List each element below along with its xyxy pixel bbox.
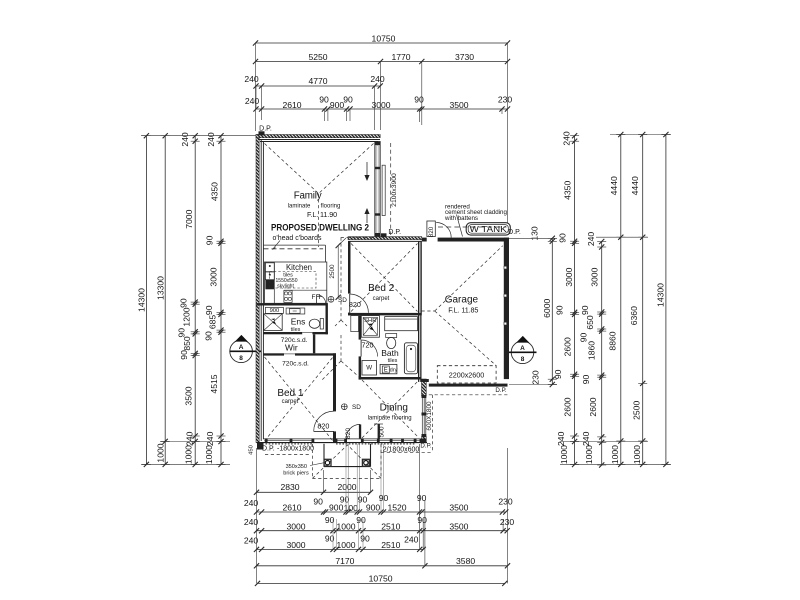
- svg-text:230: 230: [498, 497, 513, 507]
- svg-text:240: 240: [586, 232, 596, 247]
- door kitchen-hall arc: [317, 295, 326, 304]
- downpipe D.P. garage top-right: [508, 229, 521, 236]
- svg-text:SHR: SHR: [364, 318, 376, 324]
- svg-text:90: 90: [179, 350, 189, 360]
- svg-text:tiles: tiles: [291, 327, 301, 333]
- wall kitchen/ens divider: [257, 303, 328, 305]
- dimension column left 13300/1000: [155, 133, 169, 467]
- ceiling line hall spine: [322, 238, 375, 380]
- svg-text:7000: 7000: [184, 209, 194, 228]
- ceiling lines bed1: [265, 357, 334, 441]
- svg-text:F.L. 11.85: F.L. 11.85: [448, 306, 478, 315]
- wall bath/garage dividing: [418, 315, 422, 382]
- kitchen ohead cupboards: [264, 235, 326, 262]
- svg-text:2200x2600: 2200x2600: [449, 371, 485, 380]
- dimension row bottom 7170/3580: [254, 556, 510, 569]
- svg-text:2100x3900: 2100x3900: [391, 173, 398, 207]
- svg-text:600X1800: 600X1800: [426, 401, 433, 431]
- svg-text:14300: 14300: [656, 283, 666, 307]
- svg-text:2600: 2600: [563, 337, 573, 356]
- svg-text:skylight: skylight: [277, 284, 294, 290]
- svg-text:450: 450: [248, 445, 254, 455]
- kitchen F symbol: [312, 294, 322, 301]
- bath labels: [381, 348, 399, 364]
- dimension row bottom 240..1520/3500/230: [244, 493, 513, 514]
- svg-text:D.P.: D.P.: [495, 387, 507, 394]
- svg-text:90: 90: [553, 369, 563, 379]
- door bed1 820: [314, 411, 334, 431]
- svg-text:90: 90: [417, 515, 427, 525]
- svg-text:3000: 3000: [209, 267, 219, 286]
- svg-text:90: 90: [417, 493, 427, 503]
- top extension guide lines: [256, 43, 508, 223]
- svg-text:8: 8: [521, 356, 525, 363]
- dimension column right 240/3000/90/650/90/1860/90/2600/240/1000: [579, 232, 607, 468]
- svg-text:5250: 5250: [308, 52, 327, 62]
- dimension column right 130/6000/230: [530, 226, 557, 387]
- dimension column left 240/7000/90/1200/90/850/90/3500/240/1000: [177, 132, 200, 467]
- dimension column right 14300: [656, 132, 671, 467]
- ceiling lines dining: [362, 380, 419, 438]
- section marker A-8 right: [505, 336, 537, 364]
- ceiling lines family: [265, 144, 374, 248]
- svg-text:tiles: tiles: [388, 358, 398, 364]
- svg-text:720c.s.d.: 720c.s.d.: [282, 360, 309, 367]
- svg-text:240: 240: [206, 132, 216, 147]
- svg-text:240: 240: [185, 431, 195, 446]
- svg-text:4770: 4770: [308, 76, 327, 86]
- room label bed2: [368, 283, 395, 302]
- svg-text:90: 90: [179, 298, 189, 308]
- svg-text:2600: 2600: [588, 397, 598, 416]
- svg-text:850: 850: [182, 336, 192, 351]
- svg-text:4350: 4350: [210, 182, 220, 201]
- svg-text:2610: 2610: [282, 503, 301, 513]
- dimension row top 10750: [253, 33, 510, 45]
- washing machine: [362, 361, 377, 376]
- svg-text:carpet: carpet: [282, 399, 299, 405]
- dimension row top 240/2610/90/900/90/3000/90/3500/230: [245, 95, 513, 112]
- svg-text:14300: 14300: [137, 288, 147, 312]
- svg-text:240: 240: [556, 431, 566, 446]
- kitchen fridge + pantry: [265, 263, 274, 290]
- svg-text:4440: 4440: [630, 176, 640, 195]
- svg-text:350x350: 350x350: [286, 464, 307, 470]
- svg-text:90: 90: [580, 305, 590, 315]
- svg-text:90: 90: [581, 375, 591, 385]
- svg-text:240: 240: [245, 96, 260, 106]
- wir labels: [281, 337, 309, 367]
- fence dashed line at garage front: [438, 226, 507, 228]
- svg-text:dry: dry: [390, 368, 398, 374]
- svg-text:Bed 2: Bed 2: [368, 283, 395, 294]
- svg-text:90: 90: [313, 497, 323, 507]
- svg-text:D.P.: D.P.: [259, 126, 272, 133]
- wall exterior bed2 top: [348, 237, 422, 242]
- wall exterior bottom with windows: [257, 438, 428, 444]
- downpipe D.P. top-left: [259, 126, 272, 136]
- svg-text:F.L. 11.90: F.L. 11.90: [307, 210, 337, 219]
- room label bed1: [277, 388, 304, 405]
- svg-text:240: 240: [581, 431, 591, 446]
- dimension row bottom 240/3000/90/1000/90/2510/90/3500/230: [244, 515, 515, 533]
- dimension column right 4440/6360/2500/1000: [629, 132, 647, 467]
- svg-text:Wir: Wir: [285, 343, 298, 353]
- dimension row top 5250/1770/3730: [253, 52, 510, 64]
- svg-text:720: 720: [362, 340, 374, 349]
- svg-text:1200: 1200: [181, 307, 191, 326]
- bath bench: [385, 317, 418, 331]
- svg-text:laminate: laminate: [288, 204, 311, 210]
- svg-text:Ens: Ens: [291, 316, 306, 326]
- svg-text:820: 820: [345, 428, 352, 439]
- svg-text:carpet: carpet: [373, 296, 390, 302]
- svg-text:90: 90: [204, 331, 214, 341]
- svg-text:90: 90: [356, 515, 366, 525]
- svg-text:Garage: Garage: [445, 295, 479, 306]
- kitchen bench: [265, 262, 327, 303]
- dimension column right 240/4350/90/3000/90/2600/90/2600/240/1000: [553, 131, 579, 467]
- svg-text:6000: 6000: [542, 299, 552, 318]
- svg-text:1000: 1000: [336, 540, 355, 550]
- eave 450 label + dashes bottom-left: [248, 445, 309, 455]
- wall wir east: [313, 334, 315, 353]
- svg-text:tiles: tiles: [283, 272, 293, 278]
- svg-text:4350: 4350: [563, 181, 573, 200]
- porch pier left 350x350: [324, 459, 331, 466]
- linen cupboard: [351, 316, 359, 332]
- svg-text:2000: 2000: [337, 482, 356, 492]
- svg-text:6360: 6360: [629, 306, 639, 325]
- door bed2 820: [349, 294, 369, 313]
- wall bath bottom / dining top: [359, 377, 422, 380]
- wall exterior left: [256, 135, 263, 443]
- svg-text:90: 90: [414, 95, 424, 105]
- window 2100x3900 family east wall: [375, 142, 398, 237]
- svg-text:E: E: [384, 368, 388, 374]
- svg-text:1000: 1000: [559, 445, 569, 464]
- dimension row bottom 10750: [255, 573, 508, 586]
- svg-text:90: 90: [360, 534, 370, 544]
- porch slab: [324, 444, 371, 467]
- svg-text:D.P.: D.P.: [388, 229, 401, 236]
- svg-text:8: 8: [239, 355, 243, 362]
- svg-text:2500: 2500: [329, 264, 336, 279]
- svg-text:3500: 3500: [449, 503, 468, 513]
- downpipe D.P. family/bed2: [381, 229, 401, 238]
- svg-text:1000: 1000: [204, 445, 214, 464]
- wall dining east (right) with window 600x1800: [422, 379, 433, 443]
- svg-text:90: 90: [579, 333, 589, 343]
- wall nib dining 500: [374, 424, 386, 439]
- svg-text:1000: 1000: [584, 445, 594, 464]
- svg-text:SD: SD: [338, 297, 347, 304]
- svg-text:820: 820: [349, 300, 361, 309]
- svg-text:flooring: flooring: [321, 204, 341, 210]
- svg-text:650: 650: [585, 315, 595, 330]
- ens labels: [291, 316, 306, 333]
- ens toilet: [309, 319, 323, 330]
- svg-text:8860: 8860: [608, 331, 618, 350]
- svg-text:1000: 1000: [184, 445, 194, 464]
- wall bed2/garage dividing: [418, 241, 422, 315]
- wall bed1 east: [333, 353, 336, 442]
- ceiling lines bed2: [351, 244, 418, 312]
- room label garage: [445, 295, 479, 315]
- svg-text:1520: 1520: [387, 503, 406, 513]
- svg-text:1000: 1000: [610, 445, 620, 464]
- svg-text:3500: 3500: [449, 100, 468, 110]
- downpipe D.P. bottom-left + window label 1800x1800: [257, 443, 314, 453]
- svg-text:90: 90: [205, 235, 215, 245]
- svg-text:W TANK: W TANK: [470, 225, 508, 234]
- svg-text:Family: Family: [294, 190, 322, 201]
- arrows family window: [364, 162, 369, 223]
- svg-text:90: 90: [343, 95, 353, 105]
- svg-text:230: 230: [498, 95, 513, 105]
- svg-text:2830: 2830: [280, 482, 299, 492]
- svg-text:90: 90: [204, 305, 214, 315]
- wall garage top: [422, 238, 509, 242]
- svg-text:10750: 10750: [369, 573, 393, 583]
- svg-text:D.P.: D.P.: [420, 443, 432, 450]
- svg-text:4515: 4515: [209, 374, 219, 393]
- svg-text:230: 230: [500, 517, 515, 527]
- svg-text:1000: 1000: [632, 445, 642, 464]
- dimension row bottom 2830/2000: [254, 482, 373, 495]
- label 350x350 brick piers: [283, 463, 324, 477]
- svg-text:W: W: [366, 365, 372, 372]
- svg-text:o'head c'boards: o'head c'boards: [273, 235, 322, 242]
- wall bed2 west: [348, 241, 351, 315]
- svg-text:2510: 2510: [381, 521, 400, 531]
- bath shower SHR: [361, 316, 379, 338]
- downpipe D.P. garage bottom-right: [495, 387, 507, 394]
- door garage external 820: [427, 221, 451, 238]
- wall garage bottom: [429, 384, 508, 387]
- svg-text:3730: 3730: [455, 52, 474, 62]
- svg-text:240: 240: [244, 74, 259, 84]
- svg-text:3000: 3000: [286, 540, 305, 550]
- svg-text:D.P.: D.P.: [262, 446, 275, 453]
- svg-text:240: 240: [370, 74, 385, 84]
- bottom extension guide lines: [257, 444, 508, 583]
- bath tub: [404, 343, 417, 374]
- svg-text:2510: 2510: [381, 540, 400, 550]
- ens shower 900: [264, 307, 284, 330]
- wall exterior top (family): [256, 135, 380, 142]
- bath toilet: [386, 334, 397, 349]
- svg-text:1000: 1000: [336, 521, 355, 531]
- svg-text:2500: 2500: [631, 401, 641, 420]
- eave dashed garage/dining: [381, 395, 508, 453]
- svg-text:240: 240: [180, 132, 190, 147]
- wall garage-dining stub: [422, 379, 429, 382]
- door bath 720: [361, 340, 378, 357]
- kitchen cooktop: [284, 290, 292, 302]
- svg-text:3000: 3000: [590, 267, 600, 286]
- svg-text:3000: 3000: [286, 521, 305, 531]
- svg-text:685: 685: [208, 315, 218, 330]
- svg-text:900: 900: [330, 100, 345, 110]
- svg-text:1860: 1860: [587, 341, 597, 360]
- svg-text:10750: 10750: [372, 33, 396, 43]
- wall bath west / entry east: [359, 315, 362, 379]
- svg-text:900: 900: [270, 308, 280, 314]
- porch roof hips: [312, 445, 381, 479]
- dimension column right 4440/8860/1000: [608, 132, 626, 467]
- svg-text:1770: 1770: [391, 52, 410, 62]
- svg-text:90: 90: [319, 95, 329, 105]
- wall bath top: [348, 313, 421, 316]
- svg-text:laminate flooring: laminate flooring: [368, 416, 412, 422]
- svg-text:Dining: Dining: [380, 403, 408, 414]
- right extension guide lines: [509, 135, 671, 465]
- room label family: [288, 190, 341, 219]
- svg-text:SD: SD: [352, 404, 361, 411]
- dimension row bottom 240/3000/90/1000/90/2510/240: [244, 534, 426, 552]
- svg-text:with battens: with battens: [444, 215, 478, 222]
- svg-text:900: 900: [366, 503, 381, 513]
- svg-text:500: 500: [379, 426, 386, 437]
- svg-text:-1800x1800: -1800x1800: [277, 446, 314, 453]
- svg-text:820: 820: [428, 226, 435, 237]
- ohead cboards note family: [0, 0, 1, 1]
- water tank W TANK: [466, 223, 510, 235]
- svg-text:A: A: [239, 344, 244, 351]
- svg-text:1000: 1000: [155, 443, 165, 462]
- smoke detector hall: [341, 404, 361, 411]
- wall ens bottom: [264, 332, 328, 334]
- svg-text:90: 90: [177, 328, 187, 338]
- dimension column left 14300: [137, 133, 151, 467]
- ceiling lines garage: [422, 246, 503, 366]
- dimension row top 240/4770/240: [244, 74, 385, 88]
- svg-text:2610: 2610: [282, 100, 301, 110]
- dimension column left 240/4350/90/3000/90/685/90/4515/240/1000: [204, 132, 226, 467]
- dim 2500 kitchen: [329, 238, 346, 300]
- wall ens east: [326, 306, 328, 335]
- svg-text:240: 240: [562, 131, 572, 146]
- svg-text:240: 240: [404, 535, 419, 545]
- section marker A-8 left: [230, 335, 262, 363]
- svg-text:3500: 3500: [449, 521, 468, 531]
- svg-text:3580: 3580: [456, 556, 475, 566]
- svg-text:240: 240: [205, 431, 215, 446]
- door entry 820: [345, 424, 361, 439]
- svg-text:brick piers: brick piers: [283, 471, 309, 477]
- ens vanity: [286, 308, 305, 314]
- smoke detector kitchen: [328, 296, 347, 303]
- kitchen label: [283, 263, 312, 278]
- svg-text:Kitchen: Kitchen: [286, 263, 312, 272]
- svg-text:13300: 13300: [155, 276, 165, 300]
- svg-text:90: 90: [558, 233, 568, 243]
- wall garage right: [504, 238, 509, 380]
- svg-text:7170: 7170: [335, 556, 354, 566]
- svg-text:3000: 3000: [564, 267, 574, 286]
- porch eave dashed: [312, 444, 381, 478]
- kitchen skylight 1550x550: [270, 272, 317, 290]
- svg-text:4440: 4440: [609, 176, 619, 195]
- porch pier right 350x350: [362, 459, 369, 466]
- svg-text:F: F: [312, 294, 316, 301]
- wall wir bottom: [264, 353, 337, 355]
- room label dining: [368, 403, 412, 422]
- downpipe D.P. bottom-right dining: [420, 443, 432, 450]
- svg-text:90: 90: [554, 305, 564, 315]
- left extension guide lines: [141, 136, 256, 465]
- svg-text:3500: 3500: [184, 386, 194, 405]
- svg-text:Bath: Bath: [381, 348, 399, 358]
- dryer: [380, 364, 397, 373]
- svg-text:A: A: [520, 345, 525, 352]
- svg-text:2600: 2600: [563, 397, 573, 416]
- garage door opening 2200x2600: [437, 366, 496, 383]
- note rendered cement sheet cladding: [444, 203, 507, 236]
- svg-text:PROPOSED DWELLING 2: PROPOSED DWELLING 2: [271, 222, 369, 233]
- svg-text:230: 230: [531, 370, 541, 385]
